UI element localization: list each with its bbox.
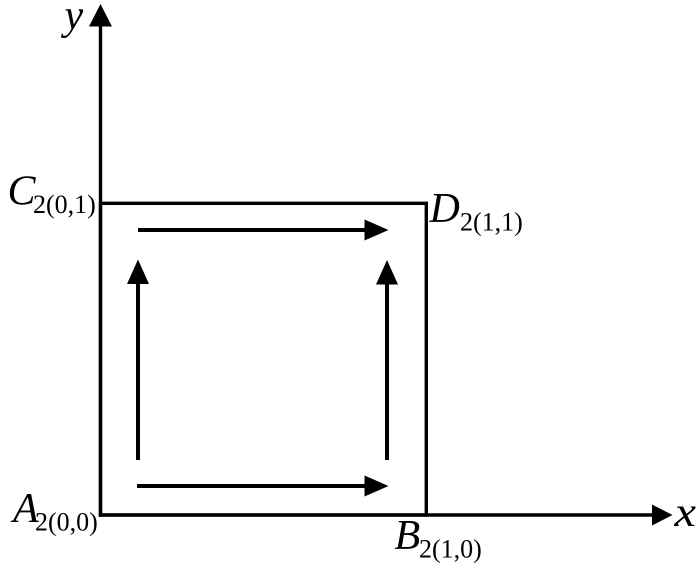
svg-text:2(1,1): 2(1,1) <box>460 208 523 237</box>
svg-text:2(0,1): 2(0,1) <box>33 190 96 219</box>
left inner arrow (upward) <box>136 283 140 460</box>
svg-text:D: D <box>429 186 460 232</box>
svg-text:x: x <box>673 490 696 536</box>
x-axis arrowhead <box>652 505 673 526</box>
bottom inner arrow (rightward) <box>137 484 365 488</box>
top inner arrow (rightward) <box>138 228 365 232</box>
y-axis arrowhead <box>89 4 112 27</box>
svg-text:y: y <box>61 0 84 39</box>
right inner arrow (upward) <box>385 284 389 460</box>
square ABDC <box>101 203 427 515</box>
svg-text:2(0,0): 2(0,0) <box>35 508 98 537</box>
svg-text:2(1,0): 2(1,0) <box>419 535 482 564</box>
y-axis line <box>99 24 102 517</box>
x-axis line <box>99 513 655 516</box>
svg-text:B: B <box>395 513 421 559</box>
